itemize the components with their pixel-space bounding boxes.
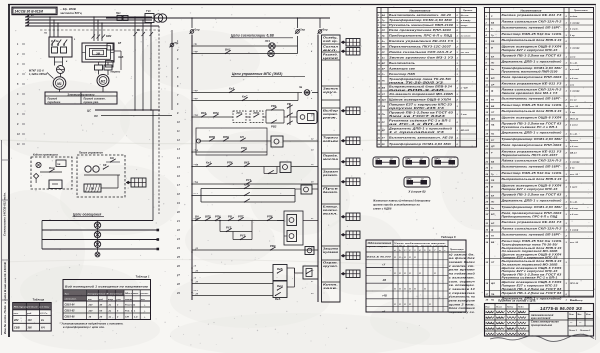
svg-text:Кнопка управления КЕ-011 У3: Кнопка управления КЕ-011 У3 (502, 13, 563, 17)
svg-text:РП4: РП4 (227, 160, 233, 164)
caption cell 8 (322, 136, 341, 153)
drawing sheet frame left border (2, 5, 10, 338)
title block revision grid (485, 304, 594, 337)
caption cell 10 (322, 170, 341, 186)
svg-text:21: 21 (176, 220, 180, 223)
svg-text:Провод ПВ-1-2,5мм кв ГОСТ 63: Провод ПВ-1-2,5мм кв ГОСТ 63 (502, 193, 563, 197)
svg-text:Кнопка управления КЕ-011 У3: Кнопка управления КЕ-011 У3 (502, 82, 563, 86)
svg-text:принципиальная: принципиальная (531, 325, 553, 327)
svg-text:С: С (491, 29, 493, 31)
svg-text:ВП5: ВП5 (205, 214, 211, 218)
svg-text:Примечание: Примечание (450, 249, 465, 251)
svg-text:М: М (491, 48, 493, 50)
caption cell 9 (322, 154, 341, 169)
lighting lamp EL4 tail (95, 249, 100, 257)
svg-text:2пр: 2пр (299, 28, 305, 31)
svg-text:27: 27 (485, 196, 489, 198)
svg-text:5мм кв ГОСТ 6323: 5мм кв ГОСТ 6323 (389, 114, 446, 118)
svg-text:Резистор ПЭВ: Резистор ПЭВ (389, 72, 415, 76)
svg-text:ЛС: ЛС (490, 63, 495, 65)
lighting circuit wire 3 (42, 238, 159, 241)
svg-text:Наименование: Наименование (520, 8, 541, 12)
wire rung 4 (192, 93, 298, 101)
svg-text:Л1: Л1 (43, 33, 48, 35)
svg-text:Держатель ДПБ-1 с прокладкой: Держатель ДПБ-1 с прокладкой (500, 60, 562, 64)
svg-text:ВА2: ВА2 (49, 166, 55, 170)
svg-text:Трансформатор ОСМ1-0,63 380/: Трансформатор ОСМ1-0,63 380/ (502, 137, 562, 141)
ladder rung number labels (176, 40, 180, 295)
table B rows content (485, 13, 581, 301)
contact KV8 before coils (267, 214, 273, 221)
svg-text:Лампа сигнальная СКЛ-12А-Л-2: Лампа сигнальная СКЛ-12А-Л-2 (500, 227, 562, 231)
svg-text:Дата: Дата (517, 312, 525, 314)
svg-text:подъём: подъём (323, 139, 338, 143)
remote device enclosure A1 dashed (31, 154, 72, 190)
svg-text:Тип: Тип (65, 294, 70, 296)
table 1 footnote text (60, 322, 124, 329)
svg-text:РУ1: РУ1 (246, 178, 252, 182)
legend connector symbol 1 (373, 157, 399, 167)
svg-text:РВ2: РВ2 (270, 244, 276, 248)
svg-text:двигат.: двигат. (323, 190, 338, 194)
table B row grid lines (485, 19, 594, 297)
svg-text:Провод ПВ-1-2,5мм кв ГОСТ 63: Провод ПВ-1-2,5мм кв ГОСТ 63 (502, 54, 563, 58)
svg-text:в шкафу: в шкафу (570, 47, 580, 50)
parallel branch on rung 8 (264, 167, 277, 175)
svg-text:на фоне блк: на фоне блк (449, 257, 476, 260)
svg-text:Захват: Захват (323, 170, 339, 174)
svg-text:ВА: ВА (491, 23, 495, 25)
svg-text:Выключатель автоматич. АЕ-20: Выключатель автоматич. АЕ-20 (389, 135, 454, 139)
contact KV2 in box on rung 5 (250, 111, 266, 123)
matrix table 8 row grid (366, 260, 448, 307)
svg-text:Звонок громкого боя МЗ-1 У3: Звонок громкого боя МЗ-1 У3 (389, 55, 454, 59)
contact KV1 in box on rung 5 (233, 111, 250, 123)
svg-text:АВ-13: АВ-13 (569, 153, 577, 155)
svg-text:Выпрямительный блок БПВ-9 24: Выпрямительный блок БПВ-9 24 (502, 38, 563, 42)
svg-text:Изм.копир.: Изм.копир. (570, 300, 583, 302)
svg-text:Лампа сигнальная СКЛ-12А-Л-2: Лампа сигнальная СКЛ-12А-Л-2 (500, 20, 562, 24)
svg-text:23: 23 (485, 168, 489, 170)
svg-text:РПб: РПб (215, 214, 221, 218)
svg-text:* Устанавливаются подрядчиком: * Устанавливаются подрядчиком с пониженн… (60, 322, 124, 325)
svg-text:Щиток освещения ОЩВ-6 УХЛ4: Щиток освещения ОЩВ-6 УХЛ4 (389, 97, 452, 101)
svg-text:ЩО: ЩО (382, 99, 386, 101)
svg-text:ВкН: ВкН (277, 284, 283, 288)
svg-text:27: 27 (176, 274, 180, 277)
svg-text:Раб. 1: Раб. 1 (125, 310, 133, 313)
svg-text:частота 50Гц: частота 50Гц (60, 11, 82, 15)
svg-text:Освещ.: Освещ. (323, 36, 338, 40)
svg-text:РПЗ: РПЗ (241, 146, 247, 150)
svg-text:см. поз: см. поз (461, 52, 470, 54)
svg-text:нулевая: нулевая (323, 251, 338, 254)
svg-text:Пульт управления: Пульт управления (79, 153, 103, 155)
caption cell 1 (322, 36, 341, 44)
svg-text:Жалюзные навесы (учётные) бл: Жалюзные навесы (учётные) блокировки (372, 200, 431, 203)
svg-text:Выключатель путевой ВП-16РГ-: Выключатель путевой ВП-16РГ- (502, 165, 562, 169)
svg-text:Трансформатор ОСМ1-0,63 380/: Трансформатор ОСМ1-0,63 380/ (389, 142, 451, 146)
svg-text:1з.+1р.: 1з.+1р. (570, 134, 578, 136)
svg-text:кол: кол (141, 299, 145, 301)
control circuit feed wire (106, 17, 330, 19)
svg-text:блок БПВ-9 24В: блок БПВ-9 24В (389, 88, 444, 92)
contact SB2 on rung 4 (242, 94, 248, 101)
svg-text:1 кр.: 1 кр. (570, 35, 576, 37)
svg-text:ВА: ВА (382, 15, 386, 17)
svg-text:РП7: РП7 (238, 214, 244, 218)
svg-text:ая РС-1 к ВП-16: ая РС-1 к ВП-16 (389, 122, 444, 126)
svg-text:Выпрямительный блок БПВ-9 24: Выпрямительный блок БПВ-9 24 (502, 109, 563, 113)
wire rung 13 (192, 283, 273, 285)
svg-text:Цепи освещения: Цепи освещения (73, 213, 101, 217)
wire drop to contactor KM2 phase A (93, 16, 95, 41)
terminal block XT0 hatched (126, 178, 146, 187)
wire rung 14 (192, 295, 273, 297)
svg-text:КЛ1: КЛ1 (244, 182, 250, 186)
svg-text:220: 220 (88, 305, 94, 307)
svg-text:ЛСО-12: ЛСО-12 (569, 119, 579, 121)
contact KV3 on rung 7 (241, 146, 247, 153)
svg-text:1з.+1р.: 1з.+1р. (570, 63, 578, 65)
left terminal numbers column (16, 43, 25, 146)
svg-text:ЭТ: ЭТ (491, 112, 495, 114)
wire rung 1 signal (192, 36, 298, 54)
svg-text:Примеч.: Примеч. (463, 10, 473, 12)
svg-text:40: 40 (99, 304, 103, 307)
svg-text:ЦС: ЦС (87, 109, 91, 113)
svg-text:Принято за основу с ЦПБ: Принято за основу с ЦПБ (498, 298, 536, 302)
svg-text:282: 282 (13, 319, 19, 322)
svg-text:ВП2: ВП2 (213, 111, 219, 115)
caption cell 5 (322, 87, 341, 100)
title block frame (485, 304, 594, 337)
svg-text:раб: раб (98, 298, 104, 301)
device box S2 (84, 184, 101, 192)
motor box cell 1 label (48, 98, 62, 104)
svg-text:Лист 1: Лист 1 (568, 330, 577, 332)
svg-text:передвиж.: передвиж. (48, 101, 62, 104)
limit switch contact SQ9 lower (275, 292, 281, 301)
motor M1 (53, 77, 66, 90)
svg-text:КК: КК (103, 163, 107, 167)
wire drop to left control bus (191, 17, 193, 28)
svg-text:Реле промежуточное РПЛ-1004: Реле промежуточное РПЛ-1004 (502, 143, 563, 147)
title block drawing number (529, 306, 594, 312)
power bus line N (25, 23, 159, 26)
svg-text:Резистор ПЭВ-25 510 Ом ±10%: Резистор ПЭВ-25 510 Ом ±10% (502, 171, 563, 175)
caption cell 6 (322, 107, 341, 109)
svg-text:съёмн.: съёмн. (570, 16, 578, 18)
svg-text:—: — (569, 322, 573, 324)
contact SQ3 on rung 6 (223, 135, 229, 142)
svg-text:РП: РП (382, 30, 386, 32)
svg-text:1пр: 1пр (195, 28, 200, 31)
motor M2 inner winding circle (99, 77, 107, 85)
power section wire labels (43, 33, 124, 74)
svg-text:20: 20 (377, 130, 381, 132)
svg-text:под кр.: под кр. (323, 39, 338, 43)
matrix table 8 label (441, 235, 456, 239)
power enclosure dashed boundary (40, 29, 160, 31)
svg-text:вкл.: вкл. (323, 49, 338, 52)
svg-text:М2: М2 (101, 79, 106, 83)
fuse FU4 on right bus (318, 28, 328, 34)
svg-text:1 котл: 1 котл (570, 125, 578, 127)
svg-text:органа реж.: органа реж. (84, 101, 100, 104)
bell HA1 (299, 86, 310, 95)
contact KV5 on rung 9 (246, 178, 252, 185)
fuse block FU1 (116, 13, 128, 20)
svg-text:+У: +У (382, 264, 386, 267)
svg-text:Лампа сигнальная СКЛ-12А-Л-2: Лампа сигнальная СКЛ-12А-Л-2 (500, 159, 562, 163)
svg-text:КЛ: КЛ (491, 196, 494, 198)
svg-text:в,ж отд: в,ж отд (570, 68, 580, 71)
svg-text:ВПН: ВПН (223, 135, 229, 139)
svg-text:авар: авар (108, 299, 114, 301)
drawing sheet frame right border (595, 5, 597, 341)
svg-text:Переключатель ПКУ3-12С-2037: Переключатель ПКУ3-12С-2037 (389, 44, 452, 48)
supply note text 380V 50Hz (60, 7, 82, 15)
svg-text:Подп: Подп (518, 306, 524, 309)
svg-text:ЛС: ЛС (381, 52, 386, 54)
svg-text:ВП: ВП (491, 78, 495, 80)
wire to motor M1 (60, 74, 62, 77)
svg-text:тормоз: тормоз (111, 72, 121, 74)
svg-text:ВкВ: ВкВ (277, 267, 283, 271)
svg-text:ПК: ПК (382, 46, 386, 48)
svg-text:220: 220 (88, 311, 94, 313)
contact SA2 on rung 5 (201, 111, 207, 118)
svg-text:в шкафу: в шкафу (570, 22, 580, 25)
matrix table 8 left column entries (366, 257, 393, 314)
svg-text:29: 29 (176, 292, 180, 295)
svg-text:С: С (491, 168, 493, 170)
svg-text:Схема электрическая: Схема электрическая (531, 322, 559, 324)
matrix table 8 header (368, 242, 465, 252)
svg-text:з-д изг.: з-д изг. (570, 213, 579, 216)
svg-text:Провод ПВ-1-2,5мм кв ГОСТ 63: Провод ПВ-1-2,5мм кв ГОСТ 63 (502, 287, 563, 291)
auxiliary feeder wire with fuse FU5 (170, 30, 179, 110)
table A row grid lines (377, 18, 477, 148)
svg-text:25: 25 (99, 317, 103, 319)
svg-text:захв.: захв. (323, 287, 338, 290)
svg-text:24: 24 (176, 247, 180, 250)
wire QF1 to overload device (55, 57, 63, 66)
lighting circuit wire 4 (42, 248, 159, 251)
right control bus vertical wire (317, 35, 319, 303)
svg-text:2а: 2а (108, 311, 112, 313)
svg-text:М1: М1 (57, 82, 62, 86)
svg-text:БК: БК (91, 188, 95, 191)
svg-text:2,5 Сч: 2,5 Сч (39, 313, 48, 315)
svg-text:25: 25 (485, 180, 489, 182)
svg-text:Щиток освещения ОЩВ-6 УХЛ4: Щиток освещения ОЩВ-6 УХЛ4 (502, 116, 563, 120)
power bus line L1 (25, 14, 152, 17)
svg-text:ШР4: ШР4 (407, 177, 413, 180)
svg-text:Кабина крановщика: Кабина крановщика (33, 154, 59, 157)
svg-text:КЛ: КЛ (240, 135, 244, 139)
function caption column frame (322, 35, 341, 302)
wire inside A2 (101, 175, 118, 188)
svg-text:кран мостовой: кран мостовой (531, 317, 551, 320)
svg-text:Пв: Пв (491, 300, 495, 302)
svg-text:ХТ: ХТ (381, 137, 386, 139)
svg-text:Лит: Лит (568, 314, 574, 316)
fuse FU2 on left bus (190, 28, 200, 34)
svg-text:Выключатель автоматич. АЕ-20: Выключатель автоматич. АЕ-20 (389, 13, 452, 17)
wire drop to breaker QF1 phase C (57, 22, 59, 37)
svg-text:Защита: Защита (323, 247, 339, 251)
table A header (377, 8, 477, 12)
contact SQ1 on rung 5 (213, 111, 219, 118)
contact pair inside A2 (106, 156, 120, 163)
svg-text:28: 28 (176, 283, 180, 286)
relay group enclosure (277, 211, 303, 245)
svg-text:схем: схем (570, 57, 576, 59)
contactor KM1 main contacts stack (244, 182, 250, 202)
wire drop to contactor KM2 phase B (97, 19, 99, 41)
title block signature scribble (490, 334, 594, 341)
svg-text:20: 20 (176, 211, 180, 214)
caption cell 14 (322, 261, 341, 282)
svg-text:РС: РС (382, 122, 386, 124)
relay coil K3 (280, 162, 291, 173)
caption cell 2 (322, 45, 341, 53)
svg-text:блок питания: блок питания (449, 307, 476, 310)
svg-text:к ~220: к ~220 (461, 88, 469, 90)
svg-text:—: — (578, 322, 582, 324)
section title lighting signal circuits (230, 34, 293, 38)
svg-text:ЛС: ЛС (490, 202, 495, 204)
svg-text:Резистор ПЭВ-25 510 Ом ±10%: Резистор ПЭВ-25 510 Ом ±10% (502, 103, 563, 107)
svg-text:ВК1: ВК1 (201, 111, 207, 115)
svg-text:М: М (491, 187, 493, 189)
matrix table 8 remark column text (447, 253, 476, 314)
svg-text:Выключатель путевой ВП-16РГ-: Выключатель путевой ВП-16РГ- (502, 233, 562, 237)
caption cell 13 (322, 247, 341, 260)
svg-text:ВП: ВП (491, 214, 495, 216)
contact KM1 aux on rung 6 (240, 135, 246, 142)
svg-text:с зажимов 14: с зажимов 14 (449, 288, 476, 291)
svg-text:реж.: реж. (321, 117, 339, 120)
svg-text:Кнопка управления КЕ-011 У3: Кнопка управления КЕ-011 У3 (389, 39, 454, 43)
svg-text:Конт.: Конт. (323, 283, 338, 287)
svg-text:Ивлев: Ивлев (496, 318, 503, 320)
svg-text:в шкафу: в шкафу (570, 161, 580, 164)
svg-text:СВБ: СВБ (14, 327, 20, 330)
svg-text:МО-100: МО-100 (461, 130, 470, 132)
svg-text:Белов: Белов (496, 323, 503, 325)
wire drop to breaker QF1 phase A (49, 16, 51, 37)
svg-text:тока ТК-20-50/5 У3: тока ТК-20-50/5 У3 (389, 80, 444, 84)
svg-text:рем: рем (116, 299, 122, 301)
svg-text:сигн. огранич: сигн. огранич (449, 281, 476, 283)
left control bus vertical wire (191, 35, 193, 301)
svg-text:1 щит: 1 щит (570, 187, 577, 189)
title block lit cells (568, 312, 594, 333)
svg-text:РП2: РП2 (254, 111, 260, 115)
svg-text:ШРЗ: ШРЗ (435, 158, 441, 160)
svg-text:Выпрямительный блок БПВ-9 24: Выпрямительный блок БПВ-9 24 (502, 177, 563, 181)
limit switch box SQ8 (273, 268, 295, 298)
svg-text:РС: РС (491, 140, 495, 142)
svg-text:разжат.: разжат. (322, 174, 338, 177)
wire rung 11 (192, 249, 318, 251)
wire rung 8 (192, 166, 318, 168)
contact KT1 on rung 10 (228, 214, 234, 221)
relay coil K4 (295, 185, 318, 194)
svg-text:Зв: Зв (299, 86, 303, 89)
svg-text:Листов 1: Листов 1 (579, 330, 591, 332)
breaker QF1 with thermal elements (49, 37, 72, 57)
svg-text:х) зажим бл.: х) зажим бл. (447, 253, 475, 256)
svg-text:Пр1: Пр1 (116, 13, 121, 15)
parts list table B frame (485, 8, 594, 298)
svg-text:ЩО: ЩО (491, 119, 495, 121)
svg-text:24: 24 (485, 173, 489, 176)
svg-text:КЕ: КЕ (382, 144, 385, 146)
svg-text:з-д изг: з-д изг (570, 207, 579, 210)
terminal block XT3 (341, 107, 360, 115)
motor description box header (45, 92, 117, 104)
lighting lamp EL2 (94, 230, 100, 240)
document designation stamp box 14ССВ 36 В-611М (12, 7, 57, 14)
matrix table 8 frame (366, 240, 466, 312)
wire rung 12 (192, 272, 273, 274)
svg-text:Цепи управления МПС (ЭМЗ): Цепи управления МПС (ЭМЗ) (232, 72, 282, 76)
svg-text:1з.+1р.: 1з.+1р. (570, 202, 578, 204)
fuse FU3 on signal bus (295, 28, 305, 34)
svg-text:ШР2: ШР2 (406, 158, 412, 160)
contact SB3 on rung 8 (206, 160, 212, 167)
svg-text:+4В: +4В (382, 295, 387, 298)
wire drop to signal bus (297, 17, 299, 28)
contact SQ inside A2 (103, 163, 109, 170)
contact KV6 on rung 10 (215, 214, 221, 221)
svg-text:с кнопки ст.: с кнопки ст. (449, 266, 475, 268)
svg-text:х перемычка: х перемычка (447, 293, 476, 295)
svg-text:на подвесной: на подвесной (449, 273, 476, 276)
svg-text:ПМ: ПМ (382, 25, 386, 27)
svg-text:Патрон Е27 с корпусом КПС-23: Патрон Е27 с корпусом КПС-23 (502, 48, 559, 52)
plug connector box XP1 (295, 266, 319, 279)
wire drop to right control bus (319, 18, 321, 28)
svg-text:Пв: Пв (382, 114, 386, 116)
wire motor M2 to description box (102, 87, 104, 93)
svg-text:2 бк: 2 бк (569, 167, 575, 170)
svg-text:ПА: ПА (491, 294, 495, 296)
lighting circuit wire 1 (42, 220, 153, 222)
svg-text:то же: то же (570, 100, 578, 102)
svg-text:Реле промежуточное РПЛ-1004: Реле промежуточное РПЛ-1004 (389, 28, 452, 32)
wire rung 7 (192, 151, 267, 153)
svg-text:ПА: ПА (382, 106, 386, 108)
svg-text:Цепи сигнализации 6,3В: Цепи сигнализации 6,3В (231, 34, 274, 38)
svg-text:СВ03-64: СВ03-64 (65, 304, 76, 307)
parallel contact pair upper (266, 104, 284, 111)
terminal block XT6 (341, 178, 360, 186)
svg-text:Место уст.: Место уст. (125, 293, 150, 295)
svg-text:орпусом КПС-235 У3: орпусом КПС-235 У3 (389, 106, 445, 110)
limit switch box SQ7 (273, 265, 295, 281)
svg-text:Блокир.: Блокир. (323, 205, 338, 209)
relay coil K6 (284, 231, 297, 242)
wire rung 10 long interlock (192, 220, 284, 222)
svg-text:поз. 14: поз. 14 (570, 105, 579, 108)
thermal relay box KK2 (106, 61, 114, 68)
svg-text:цепей: цепей (323, 56, 339, 60)
